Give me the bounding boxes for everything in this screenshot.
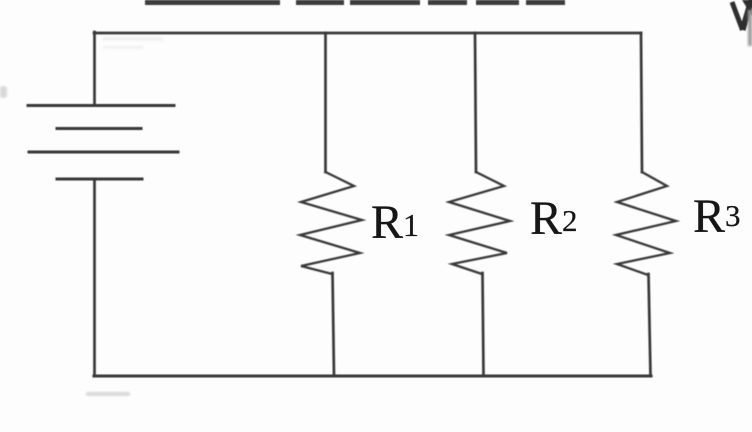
wire R3 bottom vertical <box>649 274 651 376</box>
faint ghost smudges <box>103 37 163 49</box>
handwritten check mark (cropped, top-right) <box>732 0 752 46</box>
wire battery bottom vertical <box>93 179 96 376</box>
wire top rail <box>94 32 641 35</box>
wire R2 bottom vertical <box>483 273 484 376</box>
smudge below bottom-left rail <box>0 86 130 396</box>
resistor R2 <box>449 172 510 274</box>
wire R1 bottom vertical <box>333 273 335 376</box>
resistor R1 <box>300 172 362 274</box>
battery B1 plate long top <box>28 104 174 107</box>
resistor R3 <box>616 172 676 275</box>
battery B1 plate short bottom <box>57 178 142 181</box>
wire R1 top vertical <box>324 33 327 172</box>
battery B1 plate short upper <box>57 127 141 130</box>
cropped caption text bottoms (top band) <box>145 0 565 5</box>
battery B1 plate long lower <box>29 151 178 154</box>
wire battery top vertical <box>93 32 96 105</box>
wire bottom rail <box>94 374 651 377</box>
wire R3 top vertical <box>641 33 642 172</box>
wire R2 top vertical <box>475 33 476 172</box>
